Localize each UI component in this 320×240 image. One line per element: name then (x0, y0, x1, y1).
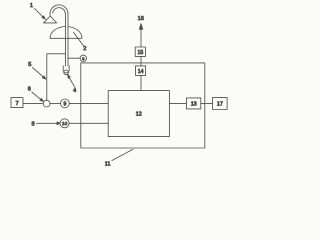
controller box 12 (108, 91, 169, 137)
valve circle 9 (61, 99, 70, 108)
pipe branch left to riser 5 (47, 54, 66, 101)
pipe branch right to sensor 3 (68, 57, 80, 59)
label 4 (68, 74, 77, 94)
svg-text:10: 10 (62, 121, 68, 126)
box 7 (11, 98, 23, 108)
svg-text:2: 2 (83, 46, 86, 52)
svg-text:6: 6 (28, 87, 31, 93)
wire 7 to node 6 (23, 102, 43, 104)
wire 10 to controller 12 (69, 122, 108, 124)
svg-text:11: 11 (105, 161, 111, 167)
enclosure box 11 (81, 63, 205, 148)
dome pipe slot (66, 25, 68, 38)
label 5 (28, 62, 46, 79)
wire 12 to 13 (169, 102, 186, 104)
wire 14 to 15 (140, 56, 142, 66)
wire node 6 to valve 9 (50, 102, 60, 104)
label 8 (31, 121, 60, 127)
valve 4 (63, 66, 69, 75)
wire 9 to controller 12 (69, 102, 108, 104)
svg-text:7: 7 (15, 101, 18, 107)
sensor circle 3 (80, 55, 86, 61)
box 13 (186, 98, 200, 109)
label 11 (105, 149, 133, 167)
dome 2 (50, 27, 82, 39)
label 6 (28, 87, 44, 102)
svg-text:15: 15 (138, 50, 144, 56)
svg-text:14: 14 (138, 69, 144, 75)
valve circle 10 (60, 119, 69, 128)
gooseneck pipe outer (50, 5, 68, 16)
box 15 (135, 47, 145, 56)
svg-text:1: 1 (30, 3, 33, 9)
pipe down (65, 14, 68, 66)
gooseneck pipe inner (53, 8, 66, 14)
wire 12 to 14 (140, 75, 142, 90)
svg-text:8: 8 (31, 121, 34, 127)
box 14 (136, 66, 146, 76)
svg-text:12: 12 (136, 112, 142, 118)
svg-text:9: 9 (64, 102, 67, 108)
box 17 (213, 98, 228, 110)
label 1 (30, 3, 45, 19)
node 6 (43, 100, 50, 107)
shower head (44, 16, 57, 23)
arrow 15 to 16 (139, 24, 142, 47)
svg-text:4: 4 (73, 88, 76, 94)
svg-text:17: 17 (217, 102, 223, 108)
label 2 (74, 32, 87, 52)
svg-text:13: 13 (191, 102, 197, 108)
svg-text:16: 16 (138, 16, 144, 22)
svg-text:5: 5 (28, 62, 31, 68)
wire 13 to 17 (201, 102, 213, 104)
